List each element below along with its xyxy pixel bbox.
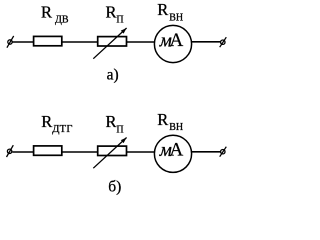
wire Rп to meter [127, 41, 155, 43]
svg-text:б): б) [108, 178, 121, 195]
svg-text:а): а) [107, 67, 119, 84]
svg-text:R: R [157, 110, 168, 129]
microammeter PA2 (circuit b) [154, 135, 191, 172]
svg-text:А: А [170, 139, 184, 160]
wire meter to X2 [191, 41, 220, 43]
wire meter to X4 [191, 151, 220, 153]
microammeter PA1 (circuit a) [154, 25, 191, 62]
svg-text:ДВ: ДВ [55, 15, 69, 26]
wire Rдтг to Rп [62, 151, 98, 153]
svg-text:R: R [41, 2, 52, 21]
wire X1 to Rдв [12, 41, 34, 43]
wire Rдв to Rп [62, 41, 98, 43]
resistor Rдв [34, 36, 62, 45]
resistor Rдтг [34, 146, 62, 155]
svg-text:ВН: ВН [169, 13, 183, 24]
terminal X3 (left input, circuit b) [7, 145, 14, 157]
rheostat Rп (variable resistor, circuit b) [93, 138, 126, 169]
svg-text:ВН: ВН [169, 122, 183, 133]
svg-text:ДТГ: ДТГ [52, 124, 73, 135]
terminal X2 (right output, circuit a) [220, 37, 227, 47]
terminal X1 (left input, circuit a) [7, 36, 14, 48]
svg-text:R: R [41, 112, 52, 131]
svg-text:П: П [116, 124, 123, 135]
svg-text:R: R [157, 0, 168, 19]
svg-text:R: R [106, 112, 117, 131]
rheostat Rп (variable resistor, circuit a) [93, 28, 126, 59]
svg-text:R: R [106, 2, 117, 21]
wire X3 to Rдтг [12, 151, 34, 153]
svg-text:П: П [116, 15, 123, 26]
wire Rп to meter (circuit b) [127, 151, 155, 153]
terminal X4 (right output, circuit b) [220, 147, 227, 157]
svg-text:А: А [170, 30, 184, 51]
